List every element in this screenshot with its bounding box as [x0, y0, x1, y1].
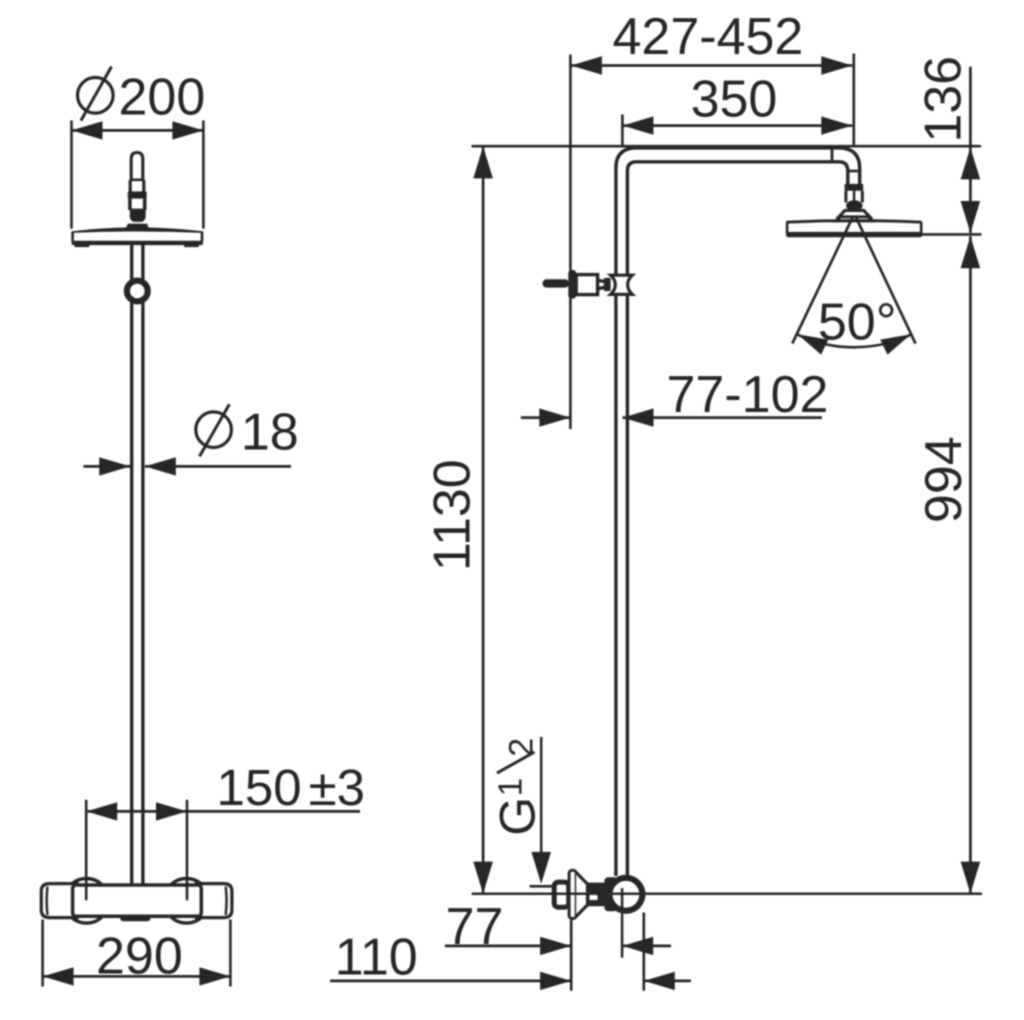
hand shower holder (side): [543, 270, 633, 299]
arm joint line: [831, 150, 834, 161]
mixer left cap: [41, 884, 77, 918]
shower head disc top rim (front): [72, 227, 203, 233]
mixer body: [73, 885, 202, 916]
shower head disc (side): [786, 221, 922, 238]
shower head disc sides (front): [73, 232, 202, 242]
head nut (side): [845, 184, 864, 211]
drop joint line: [848, 170, 860, 173]
svg-text:77: 77: [446, 898, 504, 956]
dimension 77: [445, 898, 671, 991]
arm top extension line: [472, 145, 982, 148]
pipe centre extension line: [621, 888, 624, 958]
dimension 77-102: [521, 366, 829, 427]
handle ball joint: [130, 209, 146, 223]
dimension 290: [43, 920, 231, 987]
wall reference line: [569, 55, 572, 430]
svg-text:994: 994: [915, 436, 973, 523]
floor/baseline: [472, 893, 982, 896]
riser pipe (front): [132, 245, 143, 886]
wall bracket ring: [124, 278, 151, 305]
label G1/2 with leader arrow: [490, 737, 552, 884]
mixer right cap: [197, 884, 232, 918]
svg-text:1: 1: [492, 778, 529, 796]
wall elbow (bottom, side): [530, 870, 646, 918]
handle nut: [128, 191, 147, 210]
mixer centre nut bottom: [120, 908, 150, 921]
spray angle arc: [797, 334, 911, 347]
arc arrow left: [798, 334, 829, 354]
head flange (front): [126, 224, 149, 228]
hand shower handle (front view): [130, 153, 144, 193]
dimension Ø18: [83, 403, 298, 475]
dimension 1130: [424, 146, 493, 893]
dimension 110: [330, 913, 691, 991]
shower pipe with top arm (side): [616, 148, 860, 876]
dimension 136: [914, 56, 981, 234]
spray cone lines: [792, 217, 915, 344]
svg-text:18: 18: [241, 403, 299, 461]
shower head disc bottom band (front): [72, 241, 203, 247]
dimension 350: [622, 70, 852, 145]
svg-text:G: G: [490, 797, 546, 836]
svg-text:110: 110: [335, 928, 418, 986]
svg-text:2: 2: [503, 738, 541, 757]
svg-text:50°: 50°: [818, 293, 897, 351]
dimension Ø200: [72, 67, 206, 229]
svg-text:77-102: 77-102: [667, 366, 829, 424]
svg-text:150±3: 150±3: [217, 759, 365, 816]
arc arrow right: [880, 334, 911, 354]
mixer inlet bumps (behind body): [64, 879, 209, 924]
svg-text:136: 136: [914, 56, 972, 143]
svg-text:350: 350: [691, 70, 778, 128]
dimension 427-452: [571, 8, 854, 146]
svg-text:427-452: 427-452: [613, 8, 804, 66]
dimension 150 ±3: [86, 759, 365, 900]
head mound (side): [836, 217, 873, 221]
head flange (side): [839, 210, 870, 217]
svg-text:1130: 1130: [424, 459, 482, 571]
dimension 994: [915, 236, 980, 893]
svg-text:200: 200: [119, 69, 206, 127]
